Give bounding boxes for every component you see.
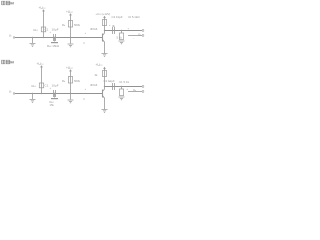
resistor Rb1 — [41, 27, 45, 32]
wire output lower — [128, 91, 142, 93]
resistor RL — [121, 86, 122, 87]
wire collector line — [105, 86, 143, 88]
ground divider node — [70, 38, 72, 44]
svg-text:Rb2 15kΩ: Rb2 15kΩ — [47, 44, 60, 48]
resistor Rb2 — [54, 94, 56, 98]
title figure (b) — [2, 60, 14, 64]
node uo output terminals — [142, 86, 144, 88]
resistor Rb1 — [39, 83, 43, 88]
resistor Rb — [68, 77, 72, 84]
wire base line — [15, 93, 102, 95]
svg-text:C2 10μF: C2 10μF — [112, 15, 123, 19]
ground input return — [32, 94, 34, 100]
capacitor C1 — [54, 90, 56, 97]
svg-text:10μF: 10μF — [52, 84, 59, 88]
title figure (a) — [2, 1, 14, 5]
wire base line — [15, 37, 102, 39]
capacitor C2 — [113, 83, 115, 90]
ground emitter — [102, 110, 108, 113]
wire output lower — [128, 35, 142, 37]
svg-text:3DG6: 3DG6 — [90, 27, 98, 31]
svg-text:5.1k: 5.1k — [117, 36, 123, 40]
node uo output terminals — [142, 30, 144, 32]
svg-text:15k: 15k — [50, 103, 55, 107]
resistor Rb2 — [54, 38, 56, 42]
svg-text:C1: C1 — [45, 84, 49, 88]
capacitor C1 — [54, 34, 56, 41]
resistor RL — [121, 30, 122, 31]
svg-text:C1: C1 — [45, 28, 49, 32]
ground input return — [32, 38, 34, 44]
ground emitter — [102, 54, 108, 57]
svg-text:560k: 560k — [74, 23, 81, 27]
svg-text:560k: 560k — [74, 79, 81, 83]
svg-text:C2 10μF: C2 10μF — [104, 79, 115, 83]
wire collector line — [105, 30, 143, 32]
svg-text:RL 5.1k: RL 5.1k — [120, 80, 130, 84]
svg-text:3DG6: 3DG6 — [90, 83, 98, 87]
svg-text:Rₗ 5.1kΩ: Rₗ 5.1kΩ — [129, 15, 141, 19]
capacitor C2 — [113, 27, 115, 34]
resistor Rb — [68, 21, 72, 28]
svg-text:+UCC(+12V): +UCC(+12V) — [96, 12, 111, 16]
ground divider node — [70, 94, 72, 100]
svg-text:10μF: 10μF — [52, 28, 59, 32]
